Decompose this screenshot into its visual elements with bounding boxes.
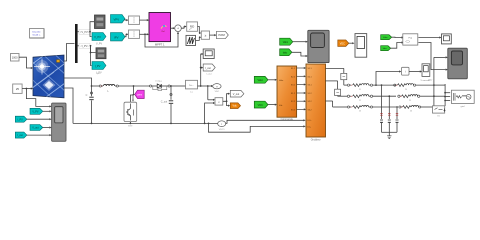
scope grid (dark grey) (448, 48, 468, 79)
stubs to grid source (445, 93, 450, 101)
from tag V_PV1 (cyan, to scope) (30, 108, 43, 114)
svg-text:V mesure: V mesure (421, 79, 431, 82)
wire VPV to delay1 (125, 19, 127, 20)
wire sum to PID (181, 27, 185, 29)
IGBT block (124, 102, 137, 121)
wire sawtooth to relational (196, 37, 201, 40)
svg-text:MPPT 1: MPPT 1 (155, 42, 165, 46)
svg-text:V_out: V_out (233, 93, 240, 96)
shunt branch phase A (380, 84, 383, 132)
from tag Vdc2 (green) (254, 101, 268, 108)
PQ measurement block (403, 34, 418, 45)
wire PV+ to DC rail (64, 78, 92, 86)
svg-text:V_PV: V_PV (94, 35, 101, 39)
svg-text:i+ -: i+ - (190, 83, 194, 87)
sawtooth generator (186, 35, 196, 45)
V measure scope (421, 64, 431, 82)
from tag Vabc (green) (280, 38, 293, 45)
svg-text:I_out: I_out (17, 134, 23, 137)
filter breaker phase A (343, 68, 345, 85)
VDC1 ammeter ellipse on bottom rail (218, 121, 226, 131)
wire I_PV to display2 and goto tag (91, 46, 96, 53)
rail inductor to diode (118, 85, 150, 87)
svg-text:I_PV: I_PV (94, 64, 100, 68)
svg-text:Cpv: Cpv (96, 73, 100, 75)
svg-text:I_out: I_out (205, 67, 211, 70)
from tag IPV (cyan) (111, 33, 126, 41)
from tag PWM (magenta) (135, 90, 145, 98)
svg-text:Vabc: Vabc (283, 41, 289, 44)
constant 1000 (irradiance) (11, 54, 20, 62)
svg-text:pwm: pwm (137, 94, 142, 96)
svg-text:PWM: PWM (218, 33, 224, 37)
VDC measurement ellipse (211, 84, 221, 94)
scope VI inverter (grey) (308, 30, 329, 62)
filter phase C drop (332, 101, 334, 107)
shunt branch phase C (396, 106, 399, 132)
capacitor C_in (86, 86, 94, 123)
diode (150, 81, 171, 91)
current measurement grid side (375, 67, 409, 86)
svg-text:Z6: Z6 (410, 111, 413, 113)
three phase line row C: RL branch 3 (333, 105, 396, 108)
svg-text:+: + (177, 27, 179, 31)
goto tag V_out (white) (230, 90, 244, 97)
shunt common wire and ground (382, 131, 398, 133)
svg-text:V_PV: V_PV (32, 110, 39, 113)
top rail left (92, 85, 100, 87)
three phase line row B: RL branch 2 (338, 95, 396, 98)
from tag V_out1 (cyan, to scope) (30, 125, 43, 131)
wire MPPT to sum (171, 27, 174, 29)
IGBT branch wire (130, 86, 133, 123)
svg-text:Vabc: Vabc (279, 80, 283, 82)
svg-text:L: L (107, 90, 109, 93)
scope PQ (white) (442, 34, 452, 44)
svg-text:Onduleur: Onduleur (311, 139, 321, 142)
powergui (30, 29, 45, 39)
from tag Vabc2 (green) (381, 35, 392, 40)
wire PQ to small scope (418, 37, 440, 39)
wires to V_out and Vdc tags (223, 94, 229, 102)
wire temperature tap to scope input 1 (26, 89, 50, 107)
shunt branch phase B (388, 95, 391, 132)
signal label V_PV (79, 29, 90, 34)
svg-text:Vdc: Vdc (279, 105, 282, 107)
svg-text:Z5: Z5 (409, 100, 412, 102)
PV array block (24, 48, 80, 100)
goto tag V_PV (cyan) (92, 33, 106, 46)
subsystem Commande (orange) (277, 66, 297, 121)
current measurement block (boost output) (186, 80, 198, 93)
svg-text:Ref: Ref (162, 31, 165, 33)
svg-text:DC-: DC- (308, 126, 312, 128)
from tag Iabc (green) (280, 49, 292, 56)
from tag VPV (cyan) (111, 15, 126, 23)
svg-text:I_L: I_L (190, 91, 194, 93)
gate wires commande to onduleur (297, 68, 305, 109)
svg-text:VDC: VDC (258, 104, 263, 107)
filter breaker phase B (337, 81, 339, 96)
voltage measurement block (204, 86, 223, 124)
scope Vdc (white) (355, 34, 367, 58)
svg-text:V_PV: V_PV (96, 42, 103, 45)
svg-text:C: C (86, 94, 88, 97)
unit delay 2 (129, 30, 140, 38)
three-phase source grid (451, 90, 474, 108)
wire constant25 to PV T input (22, 88, 32, 90)
wire V_PV to display1 and goto tag (90, 22, 94, 32)
wire relational to PWM goto (210, 34, 216, 36)
svg-text:I_out: I_out (206, 73, 212, 76)
svg-text:VDC1: VDC1 (219, 129, 226, 131)
display block 1 (95, 15, 106, 29)
three phase line row A: RL branch 1 (344, 84, 396, 87)
RL branch set 2 row A (394, 84, 434, 87)
bus selector output stubs (78, 31, 90, 33)
svg-text:grid: grid (461, 105, 465, 108)
display block 2 (96, 48, 106, 59)
svg-text:Vabc: Vabc (258, 79, 264, 82)
wires to PQ block (392, 36, 402, 38)
svg-text:IPV: IPV (114, 35, 119, 39)
svg-text:I_PV: I_PV (17, 118, 23, 121)
svg-text:V_out: V_out (32, 127, 39, 130)
constant 25 (temperature) (13, 84, 22, 93)
wire constant1000 to PV Ir input (19, 57, 32, 68)
goto tag Vdc (orange) (230, 103, 240, 109)
svg-text:Iabc: Iabc (283, 52, 288, 55)
wire B1 to big scope (434, 56, 446, 58)
wire PID to relational (198, 27, 201, 34)
svg-text:VPV: VPV (113, 17, 119, 21)
svg-text:Z4: Z4 (405, 89, 408, 91)
DC- wire to inverter (209, 123, 305, 132)
svg-text:25: 25 (16, 87, 20, 91)
rail to DC link (198, 85, 213, 87)
svg-text:5e-05 s.: 5e-05 s. (33, 34, 41, 36)
inverter output wires to filter (326, 67, 344, 69)
PV m port (orange) (57, 60, 60, 63)
wire PV m to bus selector (64, 44, 75, 62)
wire PQ to big scope (418, 43, 445, 70)
unit delay 1 (129, 16, 140, 24)
svg-text:<I_PV>: <I_PV> (81, 45, 90, 48)
svg-text:P,Q: P,Q (409, 38, 413, 40)
wire IPV to delay2 (125, 34, 127, 36)
wire PV- down to bottom rail (64, 88, 73, 123)
svg-text:1000: 1000 (12, 57, 18, 60)
from tag Uref (green) (254, 76, 268, 83)
breaker block row C (433, 106, 446, 118)
svg-text:<V_PV>: <V_PV> (80, 31, 90, 34)
wire PWM tag to IGBT gate (133, 94, 135, 101)
goto tag PWM (white) (217, 31, 229, 38)
from tag Iabc2 (green) (381, 46, 391, 51)
DC+ wire to inverter (226, 120, 304, 123)
goto tag I_PV (cyan) (92, 62, 106, 75)
wire delay1 to MPPT in1 (140, 19, 148, 21)
svg-text:Z1: Z1 (359, 89, 362, 91)
svg-text:IGBT: IGBT (128, 126, 133, 128)
RL branch set 2 row C (399, 105, 434, 108)
svg-text:Z3: Z3 (359, 111, 362, 113)
scope (boost current) white (203, 49, 214, 59)
svg-text:VDC: VDC (215, 91, 220, 93)
svg-text:D1: D1 (159, 81, 162, 83)
signal label I_PV (79, 43, 90, 48)
svg-text:Commande: Commande (281, 118, 294, 121)
wire delay2 to MPPT in2 and branch to sum (140, 33, 148, 35)
goto tag I_out (white) (203, 64, 215, 76)
svg-text:C_out: C_out (161, 101, 168, 104)
sum block (175, 25, 182, 32)
line labels set 1 (359, 89, 413, 113)
svg-text:Discrete: Discrete (32, 30, 41, 33)
scope PV (bottom left, grey) (52, 103, 66, 141)
capacitor C_out (161, 86, 173, 123)
RL branch set 2 row B (398, 95, 434, 98)
svg-text:B1: B1 (437, 115, 440, 117)
svg-text:VDC: VDC (340, 42, 345, 45)
branch up to I_out tag and scope (201, 54, 202, 86)
PID controller (187, 22, 198, 31)
from tag I_PV1 (cyan, to scope) (15, 116, 27, 122)
from tag I_out1 (cyan, to scope) (15, 132, 27, 138)
relational operator (201, 31, 209, 39)
from tag Vdc3 (orange) (338, 40, 349, 46)
bus selector bar (75, 24, 78, 63)
subsystem Onduleur (orange) (306, 64, 326, 142)
rail diode to junction (170, 85, 185, 87)
measurement bus B1 (433, 57, 435, 108)
inductor L (99, 84, 118, 92)
svg-text:Z2: Z2 (359, 100, 362, 102)
bottom rail (73, 122, 218, 124)
MPPT block (magenta) (149, 13, 171, 47)
